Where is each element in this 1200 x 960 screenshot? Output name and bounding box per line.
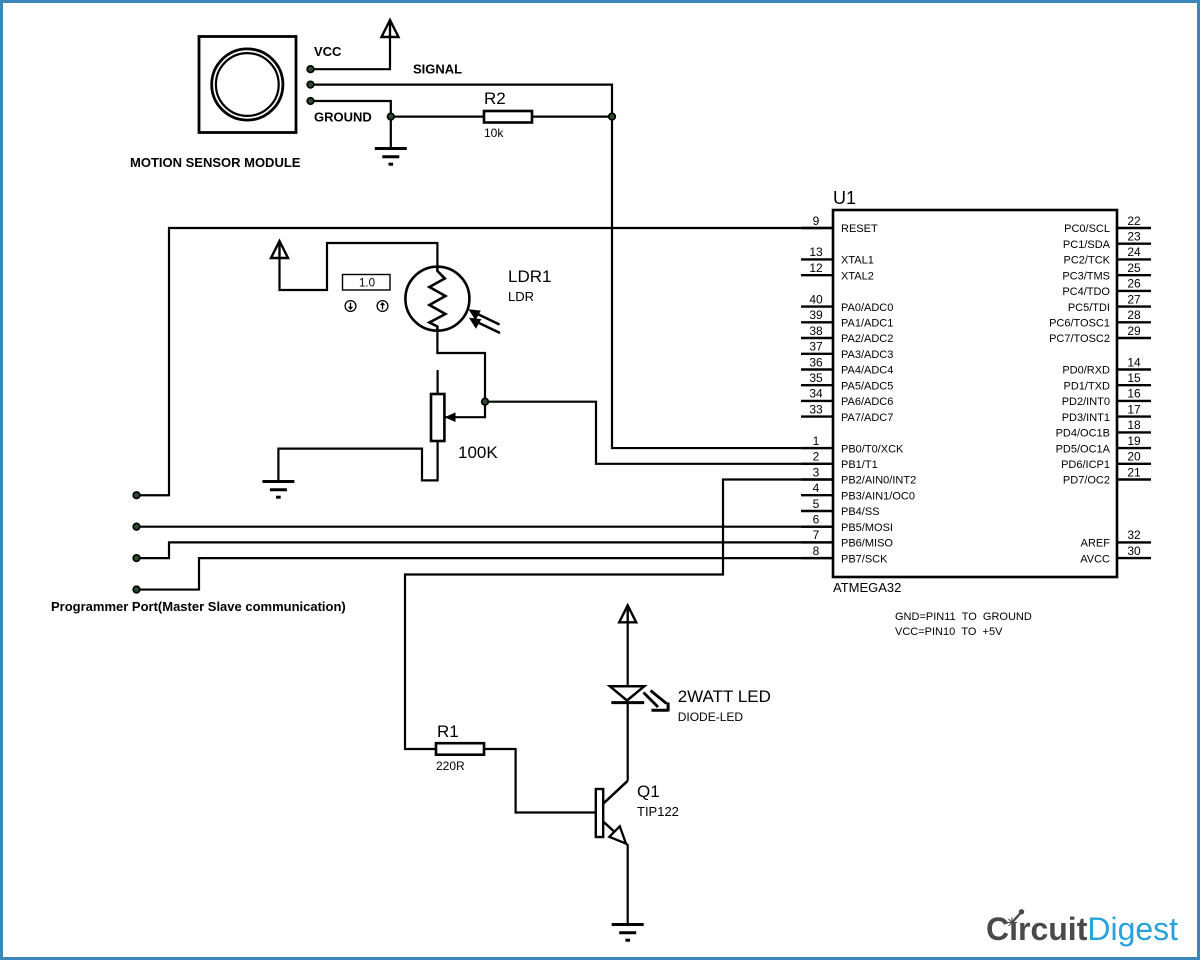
svg-text:GND=PIN11 TO GROUND: GND=PIN11 TO GROUND	[895, 611, 1032, 623]
U1 pin 24 (PC2/TCK)	[1064, 245, 1151, 266]
svg-text:8: 8	[813, 544, 820, 558]
svg-text:9: 9	[813, 214, 820, 228]
svg-text:VCC=PIN10 TO +5V: VCC=PIN10 TO +5V	[895, 626, 1003, 638]
ground symbol (pot)	[262, 482, 294, 498]
svg-text:22: 22	[1127, 214, 1141, 228]
svg-text:33: 33	[809, 402, 823, 416]
svg-text:U1: U1	[833, 188, 856, 208]
module pin VCC	[307, 66, 314, 73]
svg-text:PC7/TOSC2: PC7/TOSC2	[1049, 333, 1110, 345]
LDR light arrows	[471, 311, 500, 333]
svg-text:PB3/AIN1/OC0: PB3/AIN1/OC0	[841, 490, 915, 502]
wire power to LDR top	[280, 243, 438, 290]
svg-text:AVCC: AVCC	[1080, 553, 1110, 565]
svg-text:4: 4	[813, 481, 820, 495]
svg-text:GROUND: GROUND	[314, 110, 372, 125]
svg-text:PD7/OC2: PD7/OC2	[1063, 475, 1110, 487]
ground symbol (Q1 emitter)	[612, 925, 644, 941]
U1 pin 29 (PC7/TOSC2)	[1049, 324, 1151, 345]
wire R2 right	[532, 115, 612, 117]
U1 pin 16 (PD2/INT0)	[1062, 387, 1151, 408]
svg-text:PA0/ADC0: PA0/ADC0	[841, 302, 893, 314]
svg-text:R1: R1	[437, 722, 459, 741]
svg-text:28: 28	[1127, 308, 1141, 322]
wire VCC pin to power symbol	[311, 36, 391, 69]
potentiometer 100K top stub	[437, 370, 439, 394]
svg-text:PD5/OC1A: PD5/OC1A	[1056, 443, 1111, 455]
power symbol VCC (module)	[382, 20, 399, 37]
svg-text:39: 39	[809, 308, 823, 322]
svg-text:DIODE-LED: DIODE-LED	[678, 710, 744, 724]
svg-text:23: 23	[1127, 230, 1141, 244]
svg-text:PB2/AIN0/INT2: PB2/AIN0/INT2	[841, 475, 916, 487]
U1 pin 7 (PB6/MISO)	[801, 528, 893, 549]
LDR interactive value box 1.0	[343, 275, 391, 291]
svg-text:100K: 100K	[458, 443, 498, 462]
wiper arrowhead	[445, 412, 456, 422]
svg-text:40: 40	[809, 292, 823, 306]
node programmer SCK	[133, 586, 140, 593]
wire emitter to ground	[626, 844, 628, 924]
svg-text:AREF: AREF	[1081, 538, 1111, 550]
CircuitDigest logo	[986, 909, 1178, 947]
svg-text:1.0: 1.0	[359, 278, 375, 290]
svg-text:21: 21	[1127, 465, 1141, 479]
svg-text:PD4/OC1B: PD4/OC1B	[1056, 428, 1110, 440]
svg-text:6: 6	[813, 513, 820, 527]
svg-text:PD0/RXD: PD0/RXD	[1062, 365, 1110, 377]
svg-text:Programmer Port(Master Slave c: Programmer Port(Master Slave communicati…	[51, 599, 346, 614]
svg-text:RESET: RESET	[841, 223, 878, 235]
svg-text:ATMEGA32: ATMEGA32	[833, 580, 901, 595]
potentiometer 100K body	[431, 394, 444, 441]
wire LDR bottom to junction	[437, 330, 485, 417]
U1 pin 17 (PD3/INT1)	[1062, 402, 1151, 423]
svg-text:15: 15	[1127, 371, 1141, 385]
U1 pin 34 (PA6/ADC6)	[801, 387, 893, 408]
svg-text:SIGNAL: SIGNAL	[413, 62, 462, 77]
svg-text:17: 17	[1127, 402, 1141, 416]
svg-text:20: 20	[1127, 450, 1141, 464]
U1 pin 1 (PB0/T0/XCK)	[801, 434, 904, 455]
U1 pin 35 (PA5/ADC5)	[801, 371, 893, 392]
module pin SIGNAL	[307, 81, 314, 88]
U1 pin 25 (PC3/TMS)	[1062, 261, 1151, 282]
U1 pin 28 (PC6/TOSC1)	[1049, 308, 1151, 329]
U1 pin 9 (RESET)	[801, 214, 878, 235]
power symbol (LDR branch)	[271, 241, 288, 258]
svg-text:35: 35	[809, 371, 823, 385]
svg-text:2: 2	[813, 450, 820, 464]
wire R2 left	[391, 115, 484, 117]
svg-text:XTAL1: XTAL1	[841, 255, 874, 267]
svg-text:PC2/TCK: PC2/TCK	[1064, 255, 1111, 267]
svg-text:12: 12	[809, 261, 823, 275]
U1 pin 38 (PA2/ADC2)	[801, 324, 893, 345]
svg-text:PA4/ADC4: PA4/ADC4	[841, 365, 893, 377]
svg-text:16: 16	[1127, 387, 1141, 401]
svg-text:PD2/INT0: PD2/INT0	[1062, 396, 1110, 408]
wire pot bottom to ground	[278, 441, 437, 481]
svg-text:VCC: VCC	[314, 44, 342, 59]
svg-text:36: 36	[809, 355, 823, 369]
svg-text:PD6/ICP1: PD6/ICP1	[1061, 459, 1110, 471]
svg-text:PC5/TDI: PC5/TDI	[1068, 302, 1110, 314]
svg-text:PB6/MISO: PB6/MISO	[841, 538, 893, 550]
svg-text:PA3/ADC3: PA3/ADC3	[841, 349, 893, 361]
svg-text:LDR1: LDR1	[508, 267, 551, 286]
LED D1 2WATT	[610, 686, 644, 702]
svg-text:PC0/SCL: PC0/SCL	[1064, 223, 1110, 235]
U1 pin 23 (PC1/SDA)	[1063, 230, 1151, 251]
wire PB2 to R1	[405, 480, 833, 749]
LDR down button	[345, 301, 356, 312]
U1 pin 36 (PA4/ADC4)	[801, 355, 893, 376]
svg-text:TIP122: TIP122	[637, 804, 679, 819]
junction GROUND/R2 node	[388, 113, 395, 120]
svg-text:Q1: Q1	[637, 782, 660, 801]
svg-text:PB1/T1: PB1/T1	[841, 459, 878, 471]
svg-text:34: 34	[809, 387, 823, 401]
U1 pin 27 (PC5/TDI)	[1068, 292, 1151, 313]
resistor R1	[436, 743, 484, 755]
LDR up button	[377, 301, 388, 312]
svg-text:19: 19	[1127, 434, 1141, 448]
svg-text:14: 14	[1127, 355, 1141, 369]
svg-text:2WATT LED: 2WATT LED	[678, 687, 771, 706]
svg-text:PA6/ADC6: PA6/ADC6	[841, 396, 893, 408]
svg-text:38: 38	[809, 324, 823, 338]
U1 pin 2 (PB1/T1)	[801, 450, 878, 471]
wire PB5/MOSI trace	[137, 526, 834, 528]
U1 pin 19 (PD5/OC1A)	[1056, 434, 1151, 455]
U1 pin 26 (PC4/TDO)	[1062, 277, 1151, 298]
svg-text:LDR: LDR	[508, 289, 534, 304]
U1 pin 20 (PD6/ICP1)	[1061, 450, 1151, 471]
wire PB7/SCK trace	[137, 558, 834, 589]
svg-text:10k: 10k	[484, 126, 504, 140]
svg-text:29: 29	[1127, 324, 1141, 338]
U1 pin 21 (PD7/OC2)	[1063, 465, 1151, 486]
U1 pin 32 (AREF)	[1081, 528, 1151, 549]
svg-text:PB5/MOSI: PB5/MOSI	[841, 522, 893, 534]
wire LED to collector	[627, 703, 629, 781]
IC U1 ATMEGA32 body	[833, 210, 1117, 577]
svg-text:PA2/ADC2: PA2/ADC2	[841, 333, 893, 345]
svg-text:PA5/ADC5: PA5/ADC5	[841, 380, 893, 392]
svg-text:24: 24	[1127, 245, 1141, 259]
U1 pin 5 (PB4/SS)	[801, 497, 880, 518]
U1 pin 14 (PD0/RXD)	[1062, 355, 1151, 376]
svg-text:PA1/ADC1: PA1/ADC1	[841, 318, 893, 330]
svg-text:7: 7	[813, 528, 820, 542]
U1 pin 4 (PB3/AIN1/OC0)	[801, 481, 915, 502]
junction R2/SIGNAL node	[609, 113, 616, 120]
svg-text:220R: 220R	[436, 759, 465, 773]
U1 pin 15 (PD1/TXD)	[1064, 371, 1151, 392]
svg-text:27: 27	[1127, 292, 1141, 306]
LDR1 photoresistor	[405, 267, 469, 331]
U1 pin 8 (PB7/SCK)	[801, 544, 888, 565]
wire RESET trace	[137, 228, 834, 495]
svg-text:PB0/T0/XCK: PB0/T0/XCK	[841, 443, 904, 455]
svg-text:25: 25	[1127, 261, 1141, 275]
wire SIGNAL net: module pin to PB0	[311, 85, 834, 448]
svg-text:37: 37	[809, 340, 823, 354]
svg-text:26: 26	[1127, 277, 1141, 291]
svg-text:CırcuitDigest: CırcuitDigest	[986, 911, 1178, 947]
svg-text:5: 5	[813, 497, 820, 511]
svg-text:R2: R2	[484, 89, 506, 108]
svg-text:18: 18	[1127, 418, 1141, 432]
svg-text:MOTION SENSOR MODULE: MOTION SENSOR MODULE	[130, 155, 301, 170]
U1 pin 3 (PB2/AIN0/INT2)	[801, 465, 916, 486]
node programmer MISO	[133, 555, 140, 562]
U1 pin 12 (XTAL2)	[801, 261, 874, 282]
motion sensor module body	[199, 37, 296, 133]
svg-text:30: 30	[1127, 544, 1141, 558]
module pin GROUND	[307, 98, 314, 105]
svg-text:PC1/SDA: PC1/SDA	[1063, 239, 1111, 251]
svg-text:3: 3	[813, 465, 820, 479]
svg-text:PB4/SS: PB4/SS	[841, 506, 880, 518]
wire junction to PB1	[485, 402, 833, 464]
LED emission arrows	[644, 691, 669, 712]
wire power to LED	[627, 622, 629, 686]
svg-text:PA7/ADC7: PA7/ADC7	[841, 412, 893, 424]
node programmer RESET	[133, 492, 140, 499]
wire PB6/MISO trace	[137, 542, 834, 558]
U1 pin 40 (PA0/ADC0)	[801, 292, 893, 313]
svg-text:XTAL2: XTAL2	[841, 270, 874, 282]
U1 pin 33 (PA7/ADC7)	[801, 402, 893, 423]
svg-text:PB7/SCK: PB7/SCK	[841, 553, 888, 565]
wire R1 to Q1 base	[484, 749, 596, 813]
power symbol (LED)	[619, 605, 636, 622]
U1 pin 30 (AVCC)	[1080, 544, 1151, 565]
U1 pin 39 (PA1/ADC1)	[801, 308, 893, 329]
svg-text:PC3/TMS: PC3/TMS	[1062, 270, 1110, 282]
svg-text:PC4/TDO: PC4/TDO	[1062, 286, 1110, 298]
wire GROUND pin to ground	[311, 101, 391, 148]
svg-text:PC6/TOSC1: PC6/TOSC1	[1049, 318, 1110, 330]
U1 pin 6 (PB5/MOSI)	[801, 513, 893, 534]
svg-text:32: 32	[1127, 528, 1141, 542]
resistor R2	[484, 111, 532, 123]
node programmer MOSI	[133, 523, 140, 530]
svg-text:13: 13	[809, 245, 823, 259]
ground symbol (module)	[375, 149, 407, 165]
transistor Q1 TIP122	[596, 781, 628, 844]
U1 pin 22 (PC0/SCL)	[1064, 214, 1151, 235]
svg-text:PD3/INT1: PD3/INT1	[1062, 412, 1110, 424]
U1 pin 18 (PD4/OC1B)	[1056, 418, 1151, 439]
U1 pin 13 (XTAL1)	[801, 245, 874, 266]
svg-text:PD1/TXD: PD1/TXD	[1064, 380, 1111, 392]
junction LDR/pot wiper node	[482, 398, 489, 405]
svg-text:1: 1	[813, 434, 820, 448]
U1 pin 37 (PA3/ADC3)	[801, 340, 893, 361]
